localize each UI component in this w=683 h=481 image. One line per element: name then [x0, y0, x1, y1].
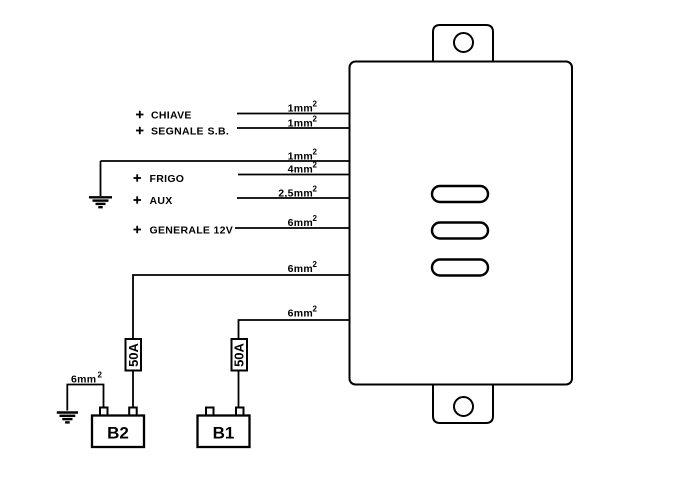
bottom mounting tab — [433, 385, 493, 423]
svg-text:1mm: 1mm — [288, 118, 313, 130]
svg-text:2: 2 — [313, 100, 318, 109]
fuse F1 50A — [126, 339, 142, 371]
wire B2 positive 6mm2 — [133, 275, 350, 339]
svg-text:B2: B2 — [107, 424, 129, 443]
wire FRIGO 4mm2 — [238, 174, 350, 176]
svg-text:B1: B1 — [213, 424, 235, 443]
B2 positive terminal — [129, 408, 137, 416]
svg-text:4mm: 4mm — [288, 164, 313, 176]
svg-text:2,5mm: 2,5mm — [278, 188, 313, 200]
wire B2 negative to ground 6mm2 — [67, 385, 103, 411]
B1 positive terminal — [236, 408, 244, 416]
svg-text:2: 2 — [313, 305, 318, 314]
wire fuse F2 to B1 positive — [238, 371, 240, 408]
main unit U1 body — [350, 62, 573, 385]
wire B1 positive 6mm2 — [239, 320, 350, 339]
wire CHIAVE 1mm2 — [237, 113, 350, 115]
svg-text:2: 2 — [313, 161, 318, 170]
plus sign SEGNALE — [136, 127, 144, 134]
wire ground 1mm2 — [101, 160, 350, 162]
wire fuse F1 to B2 positive — [132, 371, 134, 408]
plus sign CHIAVE — [136, 111, 144, 118]
svg-text:1mm: 1mm — [288, 151, 313, 163]
svg-text:GENERALE12V: GENERALE12V — [150, 225, 234, 237]
svg-text:50A: 50A — [231, 342, 246, 366]
svg-text:FRIGO: FRIGO — [150, 173, 185, 185]
vent slot 2 — [432, 223, 488, 239]
plus sign AUX — [134, 196, 142, 203]
svg-text:2: 2 — [313, 214, 318, 223]
svg-text:2: 2 — [313, 185, 318, 194]
vent slot 1 — [432, 186, 488, 202]
battery B2 body — [92, 416, 144, 448]
battery B1 body — [198, 416, 250, 448]
svg-text:2: 2 — [98, 371, 103, 380]
bottom tab hole — [454, 397, 473, 416]
svg-text:SEGNALES.B.: SEGNALES.B. — [151, 126, 229, 138]
ground (signal) — [89, 161, 112, 207]
svg-text:CHIAVE: CHIAVE — [151, 110, 192, 122]
wire GENERALE 12V 6mm2 — [235, 227, 350, 229]
svg-text:2: 2 — [313, 115, 318, 124]
plus sign FRIGO — [134, 174, 142, 181]
svg-text:6mm: 6mm — [288, 217, 313, 229]
wire SEGNALE S.B. 1mm2 — [237, 127, 350, 129]
svg-text:6mm: 6mm — [288, 263, 313, 275]
svg-text:50A: 50A — [126, 342, 141, 366]
top tab hole — [454, 33, 473, 52]
svg-text:2: 2 — [313, 260, 318, 269]
svg-text:2: 2 — [313, 148, 318, 157]
B2 negative terminal — [100, 408, 108, 416]
vent slot 3 — [432, 260, 488, 276]
svg-text:AUX: AUX — [150, 195, 173, 207]
B1 negative terminal — [206, 408, 214, 416]
top mounting tab — [433, 25, 493, 61]
wire AUX 2.5mm2 — [237, 197, 350, 199]
ground (battery B2) — [57, 413, 78, 423]
plus sign GENERALE — [134, 226, 142, 233]
svg-text:6mm: 6mm — [71, 374, 96, 386]
svg-text:6mm: 6mm — [288, 308, 313, 320]
fuse F2 50A — [232, 339, 248, 371]
svg-text:1mm: 1mm — [288, 103, 313, 115]
